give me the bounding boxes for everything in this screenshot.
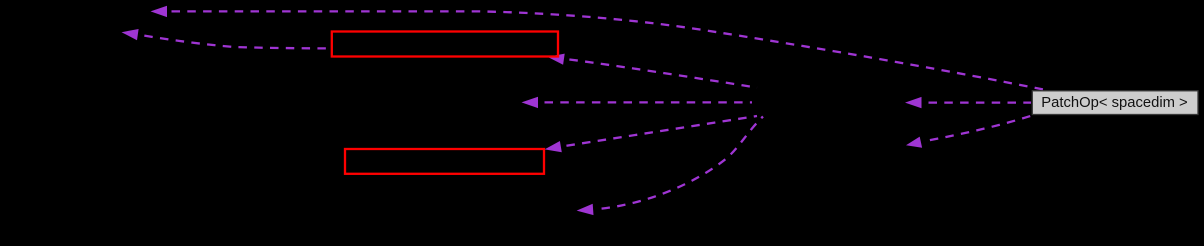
arrowhead A1 [151, 6, 168, 17]
svg-text:PatchOp< spacedim >: PatchOp< spacedim > [1041, 95, 1187, 111]
central node PatchOp< spacedim > [1032, 91, 1198, 115]
red truncated node 1 [332, 32, 558, 57]
arrowhead A8 [905, 97, 922, 108]
edge E4 (hub node to mid-left node, horizontal) [539, 101, 752, 103]
arrowhead A6 [545, 141, 562, 152]
arrowhead A2 [122, 29, 139, 40]
edge E9 (PatchOp to lower hub node) [926, 116, 1032, 141]
arrowhead A9 [906, 137, 922, 148]
arrowhead A3 [548, 54, 565, 65]
arrowhead A4 [522, 97, 539, 108]
edge E8 (PatchOp to hub node, horizontal) [923, 101, 1031, 103]
edge E7 (hub node curving down to bottom node) [596, 117, 763, 210]
edge E1 (PatchOp to top-left node) [166, 11, 1046, 90]
edge E2 (red node 1 to far-left node) [139, 35, 331, 49]
arrowhead A7 [577, 204, 594, 215]
edge E6 (hub node to red node 2 top-right corner) [561, 116, 757, 147]
edge E3 (hub node to red node 1 right edge) [564, 59, 757, 88]
red truncated node 2 [345, 149, 544, 174]
